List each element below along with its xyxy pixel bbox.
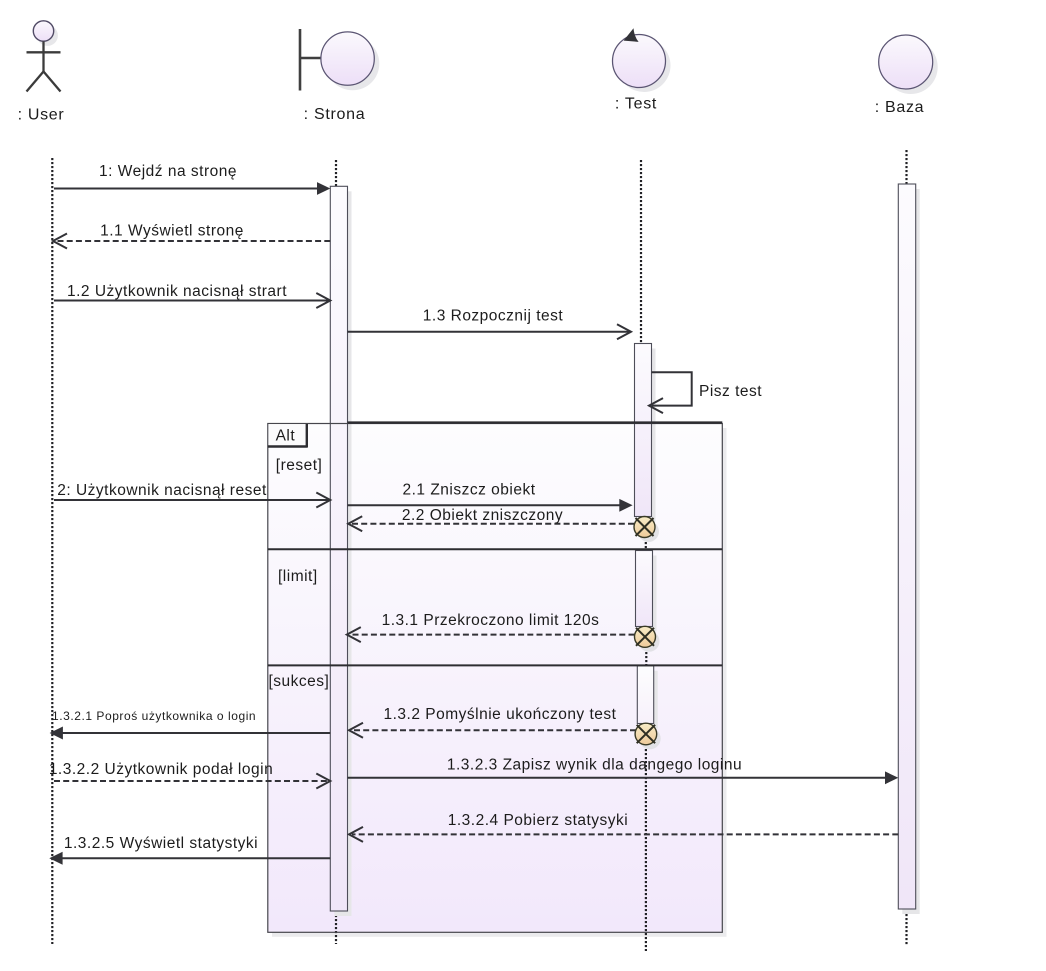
message 1.3.2.1 Poproś użytkownika o login (50, 709, 331, 740)
activation Baza shadow (902, 189, 919, 914)
message 2.1 Zniszcz obiekt (348, 482, 633, 512)
lifeline Test seg3 (645, 648, 647, 665)
svg-text:1.3.2.4 Pobierz statysyki: 1.3.2.4 Pobierz statysyki (448, 812, 629, 829)
lifeline Strona top (335, 160, 337, 186)
svg-text:: Baza: : Baza (875, 99, 925, 116)
svg-text:[limit]: [limit] (278, 568, 318, 585)
activation Test sukces shadow (641, 671, 657, 729)
message 1.3.2 Pomyślnie ukończony test (349, 706, 636, 738)
lifeline Test bottom (645, 745, 647, 951)
entity Baza (879, 35, 933, 89)
svg-text:2: Użytkownik nacisnął reset: 2: Użytkownik nacisnął reset (57, 482, 267, 499)
lifeline User (51, 158, 53, 944)
message 1.2 Użytkownik nacisnął strart (54, 283, 330, 308)
message 1.3.2.2 Użytkownik podał login (49, 761, 330, 789)
activation Test limit shadow (640, 556, 657, 632)
message 1.3.2.3 Zapisz wynik dla dangego loginu (348, 757, 899, 785)
svg-text:1: Wejdź na stronę: 1: Wejdź na stronę (99, 163, 237, 180)
control Test shadow (618, 39, 671, 92)
svg-text:1.3.2 Pomyślnie ukończony test: 1.3.2 Pomyślnie ukończony test (384, 706, 617, 723)
svg-text:1.1 Wyświetl stronę: 1.1 Wyświetl stronę (100, 223, 244, 240)
destruction X3 (635, 723, 661, 749)
alt frame shadow (272, 428, 727, 937)
svg-text:: Strona: : Strona (304, 106, 366, 123)
message 1.1 Wyświetl stronę (53, 223, 330, 249)
activation Test sukces (637, 666, 653, 724)
message 1 Wejdź na stronę (54, 163, 330, 195)
activation Baza (898, 184, 915, 909)
lifeline Test seg2 (645, 538, 647, 550)
svg-text:1.2 Użytkownik nacisnął strart: 1.2 Użytkownik nacisnął strart (67, 283, 287, 300)
svg-text:: Test: : Test (615, 96, 657, 113)
svg-text:2.1 Zniszcz obiekt: 2.1 Zniszcz obiekt (402, 482, 535, 499)
activation Test limit (636, 551, 653, 627)
message 1.3.2.5 Wyświetl statystyki (49, 835, 330, 865)
svg-text:1.3.2.5 Wyświetl statystyki: 1.3.2.5 Wyświetl statystyki (64, 835, 258, 852)
svg-text:1.3.1 Przekroczono limit 120s: 1.3.1 Przekroczono limit 120s (382, 612, 600, 629)
actor User (27, 21, 61, 92)
destruction X1 (634, 517, 659, 543)
actor User head shadow (37, 25, 58, 46)
svg-text:Pisz test: Pisz test (699, 383, 762, 400)
message 1.3.1 Przekroczono limit 120s (347, 612, 635, 642)
alt label box (268, 424, 306, 446)
boundary Strona (300, 29, 374, 91)
svg-text:1.3.2.2 Użytkownik podał login: 1.3.2.2 Użytkownik podał login (49, 761, 273, 778)
svg-text:1.3.2.1 Poproś użytkownika o l: 1.3.2.1 Poproś użytkownika o login (52, 709, 256, 723)
lifeline Test top (640, 160, 642, 344)
activation Strona (330, 186, 347, 911)
activation Test reset (635, 344, 652, 517)
self message Pisz test (649, 372, 762, 413)
message 1.3 Rozpocznij test (348, 308, 632, 340)
alt frame thick top (348, 421, 723, 423)
lifeline Strona bottom (335, 911, 337, 944)
message 1.3.2.4 Pobierz statysyki (349, 812, 898, 842)
boundary Strona shadow (326, 37, 379, 90)
alt frame border (268, 424, 723, 933)
svg-text:: User: : User (18, 107, 65, 124)
destruction X2 (635, 626, 660, 652)
message 2.2 Obiekt zniszczony (348, 507, 634, 531)
svg-text:1.3 Rozpocznij test: 1.3 Rozpocznij test (423, 308, 564, 325)
entity Baza shadow (884, 40, 938, 94)
svg-text:1.3.2.3 Zapisz wynik dla dange: 1.3.2.3 Zapisz wynik dla dangego loginu (447, 757, 742, 774)
alt divider sukces (268, 664, 723, 666)
svg-text:Alt: Alt (276, 428, 296, 445)
svg-text:[reset]: [reset] (276, 457, 323, 474)
message 2 Użytkownik nacisnął reset (54, 482, 330, 508)
lifeline Baza bottom (905, 910, 907, 946)
activation Strona shadow (334, 191, 351, 916)
svg-text:[sukces]: [sukces] (269, 673, 330, 690)
control Test (613, 28, 666, 87)
lifeline Baza top (905, 150, 907, 184)
svg-text:2.2 Obiekt zniszczony: 2.2 Obiekt zniszczony (402, 507, 563, 524)
alt divider limit (268, 548, 723, 550)
alt frame fill (268, 424, 723, 933)
activation Test reset shadow (639, 349, 656, 522)
